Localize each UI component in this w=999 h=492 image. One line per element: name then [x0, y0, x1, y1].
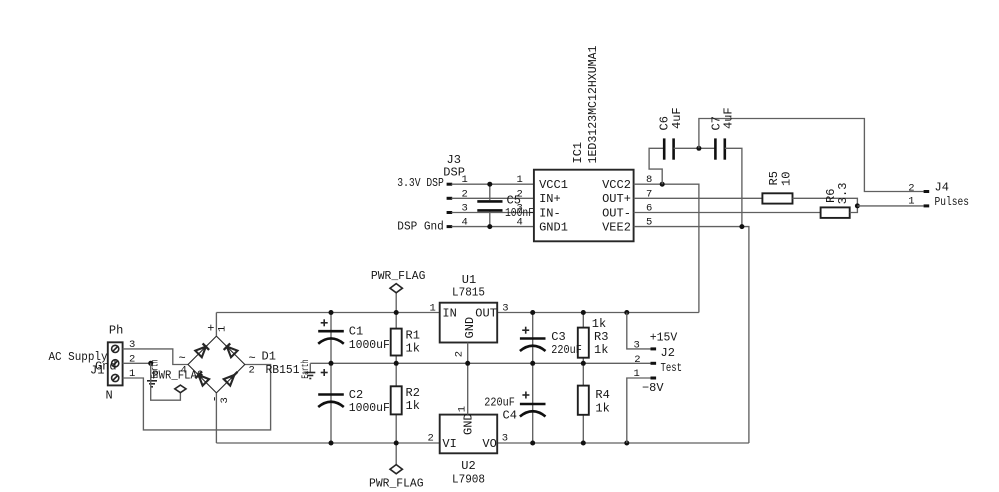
power flag PWR_FLAG at Earth net [151, 363, 204, 400]
svg-text:L7815: L7815 [452, 285, 485, 299]
svg-text:10: 10 [780, 172, 794, 186]
svg-text:4: 4 [517, 217, 523, 229]
svg-text:Ph: Ph [109, 324, 123, 338]
junction J3 pin1 / C5 [487, 182, 492, 187]
wire J1 pin2 to Earth junction [123, 362, 151, 364]
svg-text:3.3: 3.3 [836, 183, 850, 205]
wire IC1 VEE2 pin5 to bottom rail [634, 227, 749, 443]
capacitor C3 220uF [520, 313, 546, 364]
svg-text:Test: Test [661, 361, 683, 375]
svg-text:~: ~ [179, 352, 186, 366]
wire U1 GND pin2 to middle rail [467, 343, 469, 364]
svg-text:J4: J4 [935, 181, 949, 195]
svg-text:N: N [106, 389, 113, 403]
junction top rail / C3 [530, 310, 535, 315]
svg-text:U2: U2 [461, 459, 475, 473]
svg-text:C3: C3 [551, 330, 565, 344]
regulator U1 L7815 [430, 273, 509, 357]
connector J1 (AC Supply) [108, 342, 123, 385]
svg-text:PWR_FLAG: PWR_FLAG [152, 368, 203, 382]
svg-text:~: ~ [249, 352, 256, 366]
ground Earth symbol at middle rail [300, 360, 315, 379]
wire junction up and over to J4 pin2 [699, 119, 924, 192]
wire J1 pin3 to bridge AC left [123, 349, 188, 365]
capacitor C6 4uF [657, 107, 684, 159]
svg-text:1k: 1k [592, 317, 606, 331]
wire top rail to J2 pin3 [627, 313, 651, 349]
svg-text:R1: R1 [406, 328, 420, 342]
svg-text:4uF: 4uF [670, 107, 684, 129]
svg-text:2: 2 [908, 183, 914, 195]
diode D1d (- to AC right) [224, 375, 235, 386]
wire bridge - output to bottom rail [215, 393, 217, 443]
connector J2 (Test) [651, 347, 657, 379]
svg-text:1k: 1k [595, 401, 609, 415]
resistor R5 10 [762, 171, 793, 204]
svg-text:1: 1 [908, 196, 914, 208]
svg-text:PWR_FLAG: PWR_FLAG [369, 477, 424, 491]
capacitor C2 1000uF [318, 363, 390, 443]
junction top rail / R1 PWR_FLAG [394, 310, 399, 315]
svg-text:1: 1 [217, 326, 229, 332]
svg-text:PWR_FLAG: PWR_FLAG [371, 269, 426, 283]
svg-text:+15V: +15V [650, 330, 678, 344]
wire top rail (+15V unregulated) left section [216, 312, 439, 314]
svg-text:1: 1 [517, 174, 523, 186]
diode D1a (AC left to +) [195, 347, 206, 358]
wire J3 pin2 to IC1 IN+ [452, 197, 534, 199]
junction C7 / VEE2 [739, 224, 744, 229]
svg-text:1k: 1k [594, 343, 608, 357]
wire R6 to J4 pin1 junction [850, 206, 858, 213]
svg-text:GND1: GND1 [539, 220, 568, 234]
junction middle rail / R1 R2 [394, 361, 399, 366]
junction middle rail / C3 C4 [530, 361, 535, 366]
svg-text:OUT+: OUT+ [602, 192, 631, 206]
connector J3 (DSP) [447, 183, 453, 228]
wire J3 pin3 to IC1 IN- [452, 212, 534, 214]
svg-text:IC1: IC1 [571, 142, 585, 164]
svg-text:GND: GND [462, 413, 476, 435]
junction middle rail / C1 C2 [329, 361, 334, 366]
wire top rail right of U1 [497, 312, 699, 314]
svg-text:DSP Gnd: DSP Gnd [397, 220, 444, 234]
wire junction to J4 pin1 [857, 205, 923, 207]
junction at J1 pin2 / Earth [148, 361, 153, 366]
svg-text:2: 2 [634, 354, 640, 366]
svg-text:IN: IN [442, 306, 456, 320]
svg-text:VCC1: VCC1 [539, 178, 568, 192]
wire J3 pin1 to IC1 VCC1 [452, 183, 534, 185]
wire IC1 OUT- pin6 to R6 [634, 212, 821, 214]
junction bottom rail / R2 PWR_FLAG [394, 441, 399, 446]
svg-text:IN-: IN- [539, 206, 561, 220]
svg-text:3: 3 [517, 203, 523, 215]
svg-text:L7908: L7908 [452, 472, 485, 486]
svg-text:2: 2 [428, 433, 434, 445]
svg-text:2: 2 [517, 188, 523, 200]
svg-text:1ED3123MC12HXUMA1: 1ED3123MC12HXUMA1 [586, 46, 600, 164]
svg-text:3: 3 [502, 303, 508, 315]
resistor R3 1k [578, 313, 609, 364]
svg-text:J2: J2 [661, 346, 675, 360]
svg-text:C4: C4 [503, 409, 517, 423]
svg-text:−8V: −8V [642, 381, 664, 395]
power flag PWR_FLAG on bottom rail [369, 443, 424, 491]
wire IC1 VCC2 pin8 to top rail [634, 184, 699, 312]
wire J3 pin4 to IC1 GND1 [452, 226, 534, 228]
svg-text:3: 3 [502, 433, 508, 445]
junction middle rail / U1 U2 GND [465, 361, 470, 366]
resistor R4 1k [578, 363, 610, 443]
svg-text:1: 1 [457, 406, 469, 412]
svg-text:C2: C2 [349, 388, 363, 402]
junction bottom rail / C4 [530, 441, 535, 446]
svg-text:220uF: 220uF [484, 395, 515, 409]
wire bottom rail left section [216, 442, 439, 444]
diode D1c (- to AC left) [199, 375, 210, 386]
junction top rail / C1 [329, 310, 334, 315]
junction bottom rail / R4 [581, 441, 586, 446]
svg-text:2: 2 [453, 351, 465, 357]
svg-text:3: 3 [634, 339, 640, 351]
svg-text:VO: VO [482, 437, 496, 451]
resistor R2 1k [391, 363, 420, 443]
svg-text:D1: D1 [262, 350, 276, 364]
junction pin8 / C6 branch [660, 182, 665, 187]
capacitor C5 100nF [477, 184, 534, 226]
svg-text:220uF: 220uF [551, 343, 582, 357]
svg-text:C1: C1 [349, 325, 363, 339]
svg-text:VEE2: VEE2 [602, 220, 631, 234]
capacitor C4 220uF [484, 363, 545, 443]
wire bridge + output to top rail [215, 313, 217, 337]
resistor R1 1k [391, 313, 420, 364]
diode D1b (AC right to +) [227, 347, 238, 358]
ground Earth symbol at J1 pin2 [147, 360, 162, 387]
svg-text:+: + [207, 322, 214, 336]
svg-text:4: 4 [181, 365, 187, 377]
svg-text:1k: 1k [406, 399, 420, 413]
svg-text:VI: VI [442, 437, 456, 451]
svg-text:VCC2: VCC2 [602, 178, 631, 192]
wire middle rail (0V) [310, 362, 650, 364]
junction C6 / C7 / J4 branch [696, 146, 701, 151]
junction J3 pin4 / C5 [487, 224, 492, 229]
svg-text:3: 3 [219, 397, 231, 403]
wire U2 GND pin1 to middle rail [467, 363, 469, 414]
capacitor C1 1000uF [318, 313, 390, 364]
junction bottom rail / J2 branch [624, 441, 629, 446]
svg-text:4uF: 4uF [722, 107, 736, 129]
bridge rectifier D1 RB151 [188, 336, 245, 393]
wire bottom rail right of U2 [497, 442, 749, 444]
svg-text:OUT-: OUT- [602, 206, 631, 220]
wire C7 right down to VEE2 net [725, 148, 742, 226]
wire R5 to J4 pin1 junction [793, 198, 858, 206]
resistor R6 3.3 [821, 183, 850, 218]
wire pin8 junction up to C6 left plate [649, 148, 664, 184]
wire C6 right to C7 left [674, 147, 716, 149]
svg-text:1000uF: 1000uF [349, 401, 390, 415]
regulator U2 L7908 [428, 406, 509, 486]
junction top rail / J2 branch [624, 310, 629, 315]
svg-text:2: 2 [249, 365, 255, 377]
svg-text:Earth: Earth [300, 360, 312, 379]
wire J1 pin1 to bridge AC right [123, 365, 271, 430]
junction middle rail / R3 R4 [581, 361, 586, 366]
svg-text:1: 1 [430, 303, 436, 315]
svg-text:IN+: IN+ [539, 192, 561, 206]
svg-text:R2: R2 [406, 386, 420, 400]
svg-text:Pulses: Pulses [935, 195, 970, 209]
svg-text:OUT: OUT [475, 306, 497, 320]
junction top rail / R3 [581, 310, 586, 315]
wire IC1 OUT+ pin7 to R5 [634, 197, 763, 199]
svg-text:1: 1 [634, 368, 640, 380]
svg-text:R4: R4 [595, 388, 609, 402]
svg-text:3.3V DSP: 3.3V DSP [397, 176, 444, 190]
power flag PWR_FLAG on top rail [371, 269, 426, 313]
svg-text:J1: J1 [90, 364, 104, 378]
connector J4 (Pulses) [924, 190, 930, 207]
svg-text:RB151: RB151 [266, 363, 300, 377]
wire J2 pin1 to bottom rail [627, 378, 651, 443]
svg-text:GND: GND [463, 317, 477, 339]
svg-text:1k: 1k [406, 342, 420, 356]
junction bottom rail / C2 [329, 441, 334, 446]
op-amp driver IC1 1ED3123MC12HXUMA1 [534, 170, 634, 242]
capacitor C7 4uF [710, 107, 736, 159]
junction R5 / R6 / Pulses [855, 203, 860, 208]
svg-text:1000uF: 1000uF [349, 338, 390, 352]
